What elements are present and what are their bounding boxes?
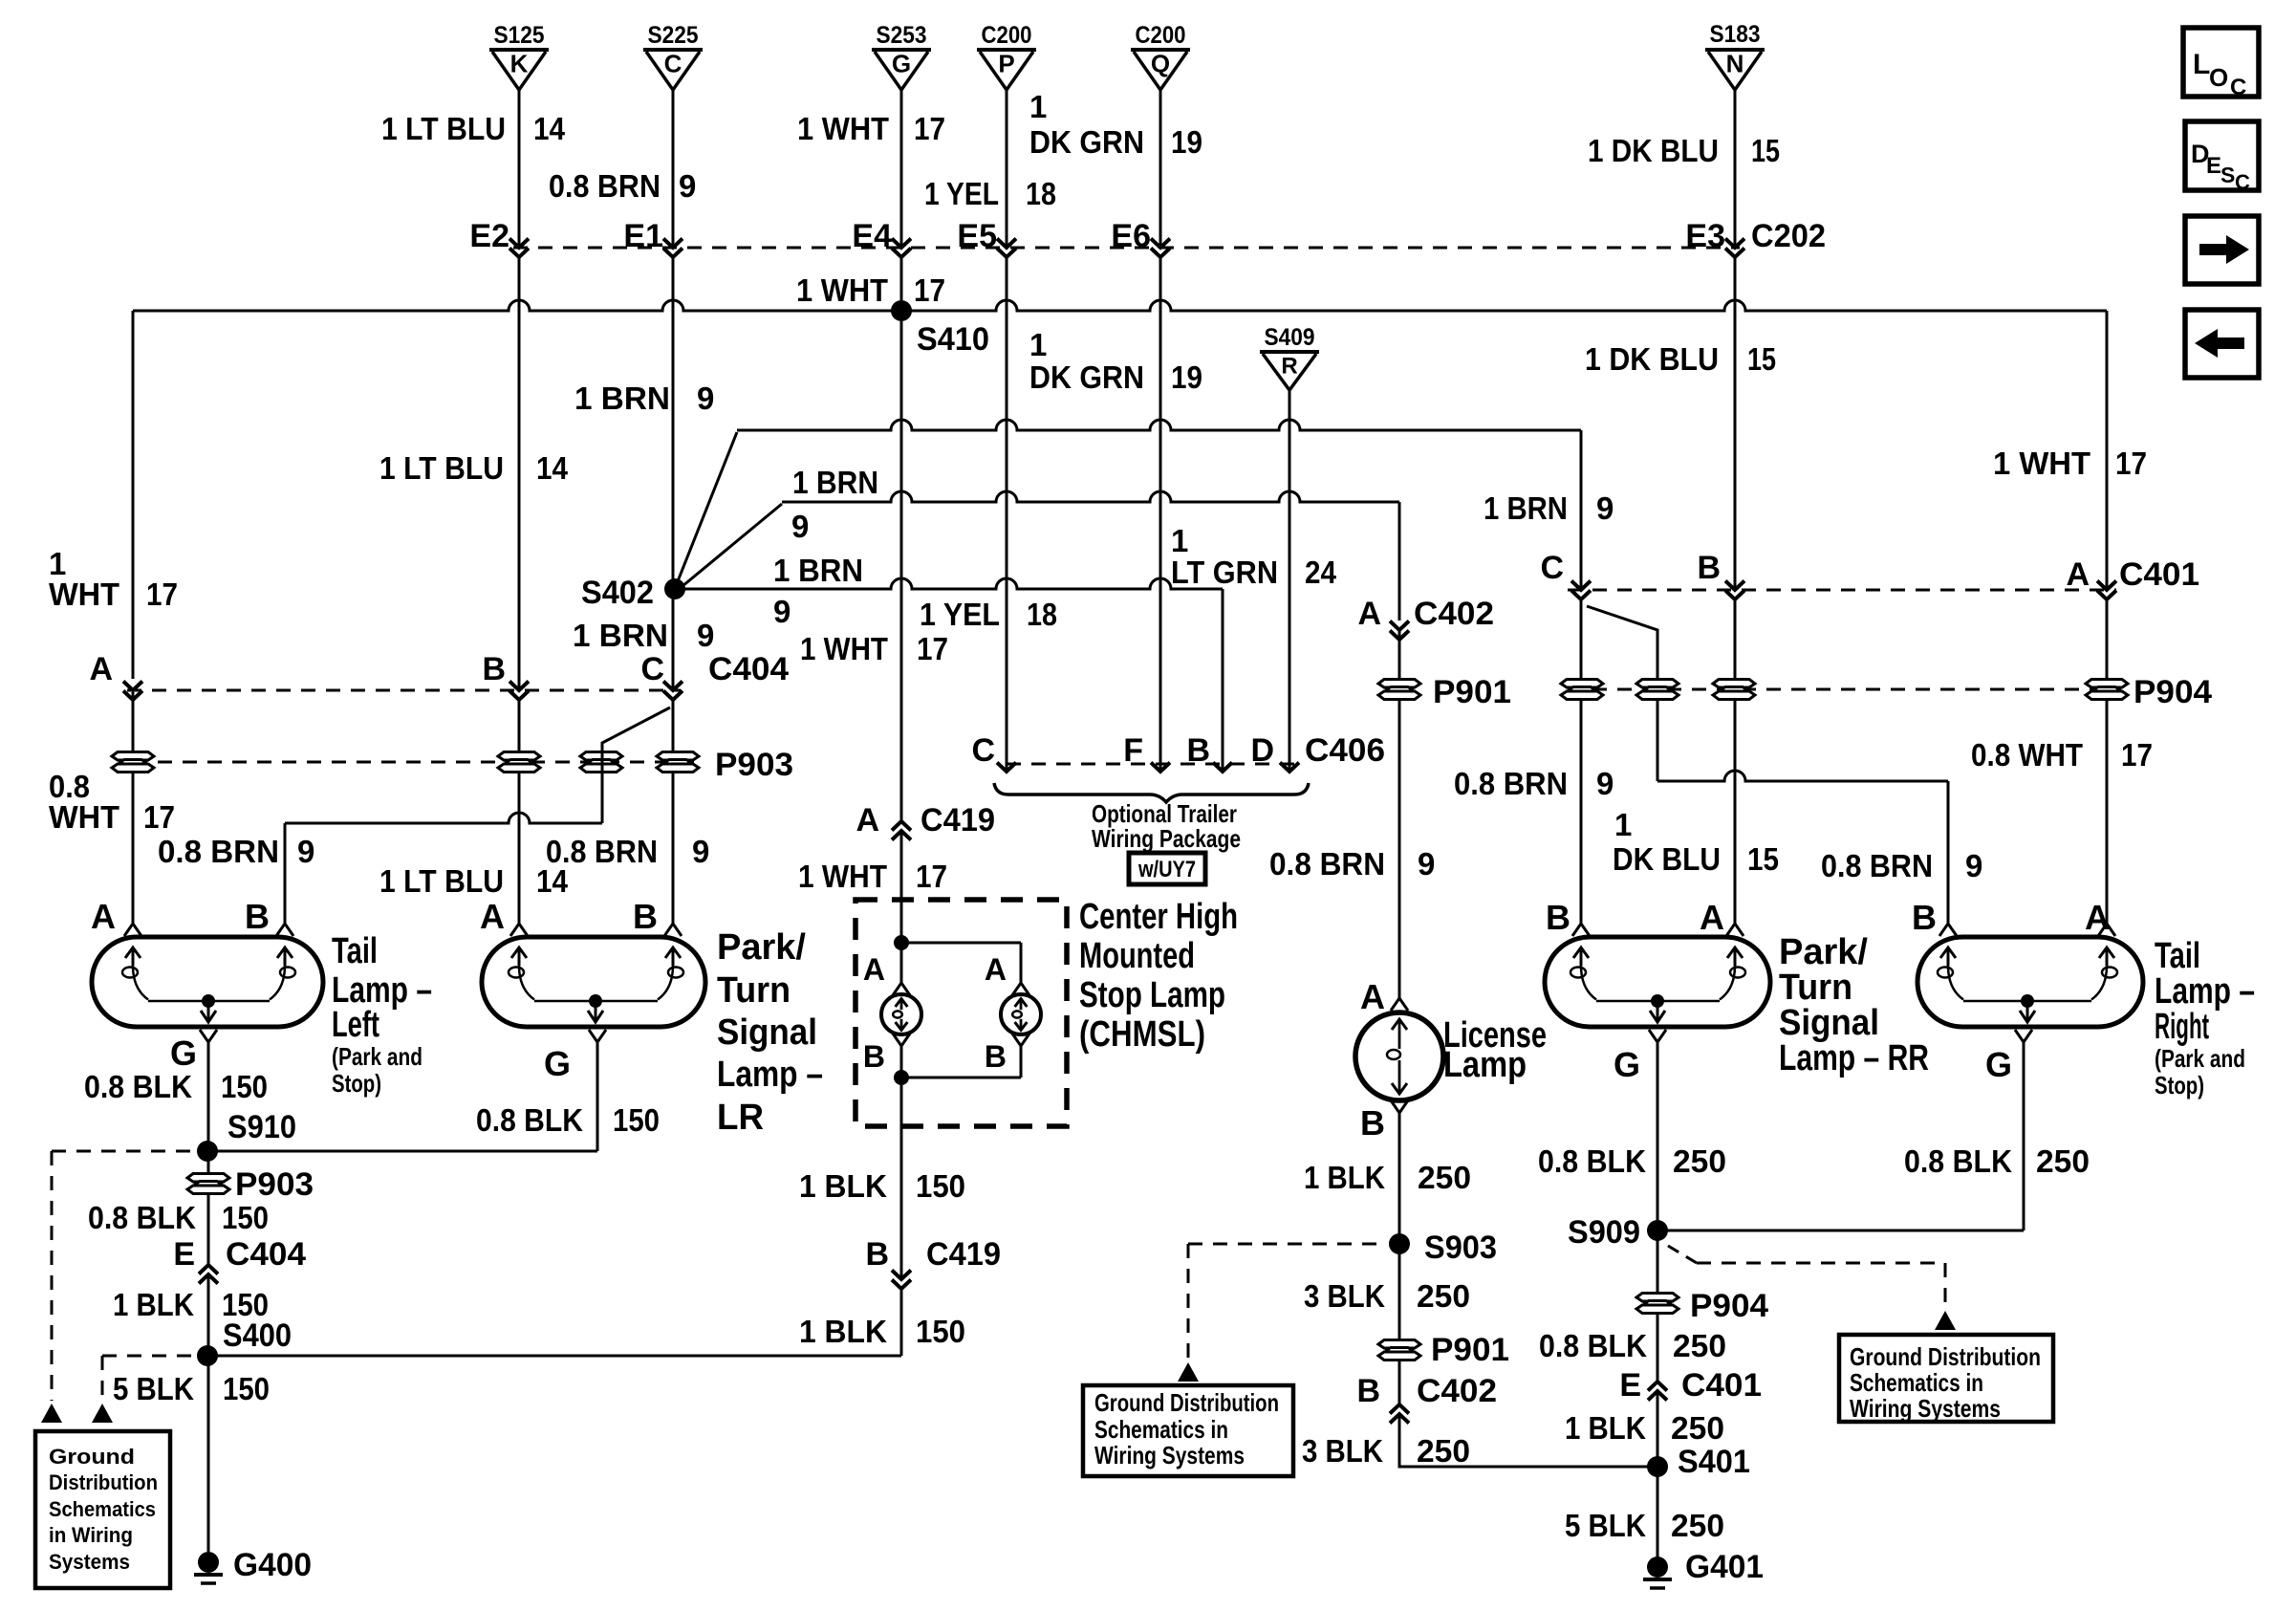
label License Lamp <box>1443 1015 1547 1085</box>
svg-text:Signal: Signal <box>717 1012 817 1053</box>
grommet row P903 dashed <box>133 761 703 764</box>
svg-text:9: 9 <box>692 834 709 869</box>
svg-text:P901: P901 <box>1433 674 1511 710</box>
connector C202 pin E1 arrow <box>663 239 682 258</box>
goto dashed S903 <box>1178 1244 1386 1382</box>
grommet P904row-2 <box>1636 680 1679 700</box>
connector C402 pin B <box>1356 1373 1497 1424</box>
svg-text:250: 250 <box>1673 1143 1726 1179</box>
svg-text:A: A <box>2066 556 2090 593</box>
label E4 <box>852 218 892 254</box>
svg-text:P903: P903 <box>715 747 793 783</box>
pin fork tailleft A <box>91 897 141 936</box>
svg-text:150: 150 <box>222 1200 269 1235</box>
wire 1 BRN 9 S402 to C402-A <box>677 491 1399 620</box>
connector C404 pin B arrow <box>482 651 529 700</box>
label 0.8 WHT 17 <box>1971 737 2153 773</box>
svg-text:19: 19 <box>1171 359 1202 395</box>
wire C 0.8 BRN 9 <box>672 89 675 924</box>
junction S909 <box>1568 1214 1668 1251</box>
brace optional trailer <box>994 783 1309 802</box>
svg-text:9: 9 <box>297 834 314 869</box>
lamp Tail Lamp Right <box>1917 937 2143 1027</box>
svg-text:1 DK BLU: 1 DK BLU <box>1588 133 1719 168</box>
label 0.8 BLK 250 low <box>1539 1328 1726 1363</box>
svg-text:0.8 BLK: 0.8 BLK <box>1539 1328 1647 1363</box>
svg-text:C402: C402 <box>1417 1373 1497 1409</box>
svg-text:9: 9 <box>697 618 714 653</box>
CHMSL bulb left <box>881 994 921 1034</box>
connector C406 dashed line <box>1007 763 1295 766</box>
connector C202 pin E6 arrow <box>1151 239 1170 258</box>
svg-text:E4: E4 <box>852 218 892 254</box>
connector S183 triangle N <box>1705 21 1765 90</box>
svg-text:S909: S909 <box>1568 1214 1640 1251</box>
label 0.8 BLK 250 tailright <box>1904 1143 2090 1179</box>
wire 1 WHT 17 right <box>2106 311 2109 924</box>
CHMSL bulb B pin left <box>863 1034 910 1074</box>
svg-text:E1: E1 <box>623 218 663 254</box>
legend box arrow right <box>2185 216 2259 284</box>
svg-text:O: O <box>2209 63 2228 92</box>
svg-text:E2: E2 <box>469 218 509 254</box>
wire P 1 YEL 18 <box>1006 89 1008 771</box>
label w/UY7 box <box>1129 853 1205 884</box>
label CHMSL title <box>1079 897 1238 1055</box>
connector C401 pin E <box>1619 1367 1762 1404</box>
svg-text:C200: C200 <box>982 22 1032 49</box>
junction S910 <box>197 1141 218 1162</box>
svg-text:14: 14 <box>533 111 566 146</box>
svg-text:Tail: Tail <box>332 931 378 971</box>
grommet row P904 dashed <box>1568 688 2107 691</box>
box Ground Distribution left <box>35 1431 170 1588</box>
svg-text:Ground: Ground <box>49 1445 135 1469</box>
svg-text:(CHMSL): (CHMSL) <box>1079 1014 1205 1055</box>
svg-text:WHT: WHT <box>49 577 119 612</box>
svg-text:Distribution: Distribution <box>49 1470 158 1494</box>
svg-text:9: 9 <box>1596 766 1614 801</box>
svg-text:(Park and: (Park and <box>2155 1044 2245 1073</box>
connector C406 pin F arrow <box>1151 763 1170 773</box>
svg-text:K: K <box>510 50 529 78</box>
label 1 BLK 150 chmsl <box>799 1168 965 1204</box>
svg-text:0.8 WHT: 0.8 WHT <box>1971 737 2083 773</box>
grommet P903-1 <box>112 752 154 773</box>
wire 1 BRN 9 S402 to C401-C <box>676 420 1581 590</box>
connector C406 pin B arrow <box>1213 763 1232 773</box>
svg-text:Mounted: Mounted <box>1079 936 1195 976</box>
svg-text:Schematics in: Schematics in <box>1094 1415 1228 1444</box>
svg-text:B: B <box>1697 550 1721 586</box>
svg-text:3 BLK: 3 BLK <box>1304 1278 1385 1314</box>
pin fork license A <box>1360 977 1408 1016</box>
label 9 line3 <box>791 509 809 544</box>
lamp Park/Turn Signal LR <box>482 937 705 1027</box>
label 0.8 BRN 9 parkLR-B <box>546 834 709 869</box>
svg-text:150: 150 <box>916 1314 965 1349</box>
svg-text:19: 19 <box>1171 124 1202 160</box>
svg-text:1 WHT: 1 WHT <box>798 859 887 894</box>
label 0.8 BRN 9 license <box>1269 846 1435 882</box>
connector C419 pin B <box>865 1236 1001 1289</box>
lamp Park/Turn Signal RR <box>1545 937 1770 1027</box>
svg-text:E: E <box>2206 153 2221 179</box>
svg-text:17: 17 <box>2121 737 2153 773</box>
pin fork tailright B <box>1912 898 1957 937</box>
wire 1 BRN 9 S402 to C406-B <box>675 578 1223 771</box>
label 1 BRN 9 below S402 <box>573 618 714 653</box>
label E5 <box>957 218 997 254</box>
svg-text:150: 150 <box>916 1168 965 1204</box>
svg-text:1 LT BLU: 1 LT BLU <box>379 863 504 899</box>
svg-text:G401: G401 <box>1685 1549 1764 1585</box>
svg-text:1 WHT: 1 WHT <box>1993 446 2090 481</box>
svg-text:Stop): Stop) <box>2155 1071 2204 1099</box>
lamp License Lamp circle <box>1355 1012 1443 1100</box>
svg-text:C: C <box>1540 550 1564 586</box>
svg-text:1: 1 <box>1171 523 1188 558</box>
pin fork parkLR A <box>480 897 528 936</box>
wire 0.8 BRN 9 license feed <box>1398 630 1401 998</box>
svg-text:17: 17 <box>914 111 945 146</box>
svg-text:LT GRN: LT GRN <box>1171 555 1278 590</box>
svg-text:C401: C401 <box>1681 1367 1762 1404</box>
svg-text:0.8 BRN: 0.8 BRN <box>1269 846 1385 882</box>
svg-text:150: 150 <box>221 1069 268 1104</box>
label 1 BLK 150 low <box>799 1314 965 1349</box>
svg-text:1 BRN: 1 BRN <box>792 465 878 500</box>
connector C402 pin A <box>1357 596 1494 640</box>
pin fork tailleft G <box>170 1030 217 1073</box>
label E3 <box>1685 218 1725 254</box>
svg-text:150: 150 <box>223 1371 270 1406</box>
label Park Turn Signal Lamp LR <box>717 927 823 1138</box>
label 1 WHT 17 left <box>49 546 178 612</box>
svg-text:C202: C202 <box>1751 218 1826 254</box>
svg-text:250: 250 <box>1671 1410 1724 1446</box>
label 3 BLK 250 b <box>1302 1433 1470 1469</box>
svg-text:C401: C401 <box>2119 556 2199 593</box>
svg-text:C419: C419 <box>921 802 995 838</box>
label 1 DK BLU 15 mid <box>1585 341 1776 377</box>
label 1 WHT 17 mid <box>800 631 948 666</box>
label E1 <box>623 218 663 254</box>
svg-text:C: C <box>664 50 682 78</box>
label 1 LT BLU 14 mid <box>379 450 569 486</box>
svg-text:C406: C406 <box>1305 732 1385 769</box>
label 9 line4 <box>773 594 791 629</box>
label P904 <box>2134 674 2212 710</box>
label 1 BRN line3 <box>792 465 878 500</box>
svg-text:17: 17 <box>143 799 175 835</box>
goto dashed S400 <box>92 1356 194 1423</box>
svg-text:S253: S253 <box>877 22 927 49</box>
svg-text:C: C <box>640 651 664 687</box>
svg-text:1: 1 <box>1029 89 1047 124</box>
CHMSL bulb A pin right <box>985 952 1029 995</box>
connector S253 triangle G <box>872 22 931 90</box>
svg-text:9: 9 <box>697 381 714 416</box>
label P903 <box>715 747 793 783</box>
label 1 YEL 18 top <box>924 176 1056 211</box>
svg-text:Q: Q <box>1151 50 1170 78</box>
ground G400 <box>194 1547 312 1583</box>
svg-text:D: D <box>1250 732 1274 769</box>
svg-text:A: A <box>89 651 113 687</box>
svg-text:Right: Right <box>2155 1007 2209 1047</box>
svg-text:1 BRN: 1 BRN <box>773 553 863 588</box>
svg-text:Systems: Systems <box>49 1550 130 1574</box>
svg-text:S125: S125 <box>494 22 545 49</box>
svg-text:L: L <box>2193 49 2210 80</box>
svg-text:24: 24 <box>1305 555 1337 590</box>
svg-text:9: 9 <box>791 509 809 544</box>
label 0.8 BRN 9 top <box>549 168 696 204</box>
svg-text:9: 9 <box>1596 490 1614 526</box>
junction S402 <box>581 575 685 611</box>
label 5 BLK 250 <box>1565 1508 1724 1543</box>
label Tail Lamp Left <box>332 931 432 1098</box>
svg-text:1 WHT: 1 WHT <box>800 631 888 666</box>
svg-text:C404: C404 <box>708 651 789 687</box>
label Tail Lamp Right <box>2155 936 2255 1099</box>
label 0.8 BLK 150 parkLR <box>476 1102 660 1138</box>
pin fork parkLR B <box>633 897 682 936</box>
svg-text:17: 17 <box>914 272 945 308</box>
connector S225 triangle C <box>643 22 703 90</box>
svg-text:Schematics: Schematics <box>49 1497 156 1521</box>
svg-text:0.8 BRN: 0.8 BRN <box>549 168 661 204</box>
wire 1 WHT 17 left <box>132 311 135 924</box>
svg-text:15: 15 <box>1747 341 1776 377</box>
svg-text:B: B <box>1546 898 1570 937</box>
connector C200 triangle Q <box>1131 22 1190 90</box>
label 1 LT GRN 24 <box>1171 523 1337 590</box>
svg-text:5 BLK: 5 BLK <box>113 1371 194 1406</box>
connector C404 pin E <box>173 1236 306 1284</box>
connector C401 pin B arrow <box>1697 550 1744 599</box>
svg-text:B: B <box>1360 1103 1385 1143</box>
label C202 <box>1751 218 1826 254</box>
svg-text:Left: Left <box>332 1005 379 1045</box>
svg-text:B: B <box>865 1236 889 1273</box>
svg-text:G: G <box>170 1034 197 1073</box>
ground G401 <box>1643 1549 1764 1588</box>
junction S903 <box>1389 1230 1497 1266</box>
connector C401 pin C arrow <box>1540 550 1591 599</box>
svg-text:17: 17 <box>916 859 947 894</box>
svg-text:A: A <box>480 897 505 936</box>
svg-text:C419: C419 <box>926 1236 1001 1273</box>
svg-text:S910: S910 <box>227 1109 296 1145</box>
svg-text:1 WHT: 1 WHT <box>796 272 888 308</box>
svg-text:250: 250 <box>1671 1508 1724 1543</box>
svg-text:Turn: Turn <box>1779 968 1852 1008</box>
label C401 <box>2119 556 2199 593</box>
svg-text:0.8 BLK: 0.8 BLK <box>88 1200 196 1235</box>
connector C202 pin E2 arrow <box>509 239 529 258</box>
svg-text:S400: S400 <box>223 1317 292 1354</box>
grommet P904-2 <box>1636 1288 1768 1324</box>
label 1 BRN 9 wireC <box>574 381 714 416</box>
svg-text:Center High: Center High <box>1079 897 1238 937</box>
svg-text:18: 18 <box>1026 176 1056 211</box>
label S910 <box>227 1109 296 1145</box>
connector C202 pin E5 arrow <box>997 239 1016 258</box>
CHMSL bulb right <box>1001 994 1041 1034</box>
svg-text:1 YEL: 1 YEL <box>924 176 999 211</box>
svg-text:0.8 BLK: 0.8 BLK <box>1538 1143 1646 1179</box>
CHMSL bottom junction <box>894 1046 1021 1085</box>
connector S125 triangle K <box>489 22 549 90</box>
svg-text:B: B <box>985 1039 1007 1074</box>
wire R 1 LT GRN 24 <box>1289 390 1291 771</box>
svg-text:Ground Distribution: Ground Distribution <box>1094 1388 1279 1417</box>
svg-text:1 WHT: 1 WHT <box>797 111 889 146</box>
svg-text:1 BLK: 1 BLK <box>1565 1410 1646 1446</box>
svg-text:1 LT BLU: 1 LT BLU <box>381 111 506 146</box>
label Park Turn Signal Lamp RR <box>1779 932 1929 1078</box>
label S400 <box>223 1317 292 1354</box>
svg-text:Ground Distribution: Ground Distribution <box>1850 1342 2041 1371</box>
label C404 <box>708 651 789 687</box>
legend box arrow left <box>2185 310 2259 378</box>
label 0.8 BRN 9 parkRR B <box>1454 766 1614 801</box>
svg-text:A: A <box>985 952 1007 987</box>
svg-text:Stop): Stop) <box>332 1069 381 1098</box>
svg-text:DK BLU: DK BLU <box>1613 841 1721 877</box>
label 1 BRN line4 <box>773 553 863 588</box>
svg-text:1 BRN: 1 BRN <box>573 618 668 653</box>
label E2 <box>469 218 509 254</box>
wire 1 BLK 150 to S400 <box>207 1289 901 1356</box>
connector S409 triangle R <box>1260 324 1319 390</box>
svg-text:3 BLK: 3 BLK <box>1302 1433 1383 1469</box>
label Optional Trailer Wiring Package <box>1092 799 1241 853</box>
junction S401 <box>1647 1444 1750 1480</box>
svg-text:A: A <box>2085 898 2110 937</box>
connector C404 pin A arrow <box>89 651 142 700</box>
svg-text:S183: S183 <box>1710 21 1761 48</box>
svg-text:DK GRN: DK GRN <box>1029 359 1144 395</box>
CHMSL bulb A pin left <box>863 952 910 995</box>
connector C202 pin E3 arrow <box>1725 239 1744 258</box>
svg-text:A: A <box>1700 898 1724 937</box>
svg-text:G: G <box>544 1044 571 1083</box>
svg-text:A: A <box>91 897 116 936</box>
svg-text:1 BRN: 1 BRN <box>1484 490 1568 526</box>
legend box DESC <box>2185 121 2259 194</box>
svg-text:P904: P904 <box>2134 674 2212 710</box>
wire S410 bus 1 WHT 17 <box>133 300 2107 311</box>
wire K 1 LT BLU 14 <box>518 90 521 924</box>
svg-text:17: 17 <box>2115 446 2147 481</box>
svg-text:Lamp –: Lamp – <box>717 1055 823 1095</box>
label 0.8 BRN 9 tailright B <box>1821 848 1982 883</box>
box Ground Distribution right <box>1839 1335 2053 1423</box>
pin fork parkRR B <box>1546 898 1590 937</box>
svg-text:17: 17 <box>146 577 178 612</box>
svg-text:C: C <box>971 732 995 769</box>
svg-text:150: 150 <box>613 1102 660 1138</box>
svg-text:1 YEL: 1 YEL <box>920 597 1000 632</box>
wire S909 to tailright G <box>1657 1042 2024 1230</box>
svg-text:9: 9 <box>1965 848 1982 883</box>
svg-text:1 BLK: 1 BLK <box>113 1287 194 1322</box>
svg-text:C402: C402 <box>1414 596 1494 632</box>
svg-text:0.8 BRN: 0.8 BRN <box>158 834 279 869</box>
pin fork tailright A <box>2085 898 2115 937</box>
wire 0.8 BRN 9 C401C to tailright B <box>1587 606 1948 924</box>
svg-text:0.8 BRN: 0.8 BRN <box>1821 848 1933 883</box>
svg-text:Wiring Package: Wiring Package <box>1092 824 1241 853</box>
label 1 BLK 250 <box>1565 1410 1724 1446</box>
grommet P903-2 <box>498 752 540 773</box>
grommet P901 <box>1378 674 1511 710</box>
svg-text:15: 15 <box>1751 133 1780 168</box>
svg-text:E: E <box>1619 1367 1641 1404</box>
svg-text:R: R <box>1281 353 1297 379</box>
grommet P904row-3 <box>1713 680 1755 700</box>
svg-text:A: A <box>1360 977 1385 1016</box>
svg-text:A: A <box>1357 596 1381 632</box>
svg-text:B: B <box>633 897 658 936</box>
label 0.8 WHT 17 left <box>49 769 175 835</box>
svg-text:1 BLK: 1 BLK <box>799 1168 887 1204</box>
grommet P904 <box>2086 680 2128 700</box>
svg-text:Tail: Tail <box>2155 936 2200 976</box>
svg-text:Schematics in: Schematics in <box>1850 1368 1983 1397</box>
CHMSL top junction <box>894 935 1021 983</box>
svg-text:1 BRN: 1 BRN <box>574 381 670 416</box>
svg-text:1 DK BLU: 1 DK BLU <box>1585 341 1719 377</box>
svg-text:E6: E6 <box>1111 218 1151 254</box>
svg-text:5 BLK: 5 BLK <box>1565 1508 1646 1543</box>
wire G 1 WHT 17 <box>900 89 903 983</box>
connector C406 pin D arrow <box>1280 763 1299 773</box>
svg-text:B: B <box>1186 732 1210 769</box>
wire N 1 DK BLU 15 <box>1734 89 1737 924</box>
grommet P903-5 <box>187 1166 314 1203</box>
svg-text:250: 250 <box>1673 1328 1726 1363</box>
goto dashed S910 <box>41 1151 196 1423</box>
svg-text:1: 1 <box>1029 327 1047 362</box>
label E6 <box>1111 218 1151 254</box>
wire S910 to parkLR G <box>207 1042 597 1151</box>
connector C401 pin A arrow <box>2066 556 2116 599</box>
wire CHMSL ground drop <box>900 1078 903 1279</box>
svg-text:E3: E3 <box>1685 218 1725 254</box>
svg-text:G: G <box>1985 1045 2012 1084</box>
pin fork parkLR G <box>544 1030 606 1083</box>
svg-text:A: A <box>863 952 885 987</box>
label 1 LT BLU 14 top <box>381 111 566 146</box>
wire 0.8 BRN 9 C404C to tailleft B <box>285 708 670 924</box>
svg-text:Lamp –: Lamp – <box>2155 971 2255 1012</box>
pin fork parkRR A <box>1700 898 1744 937</box>
box Ground Distribution middle <box>1083 1385 1293 1476</box>
label 1 DK GRN 19 mid <box>1029 327 1202 395</box>
svg-text:Stop Lamp: Stop Lamp <box>1079 975 1225 1015</box>
label 1 DK BLU 15 top <box>1588 133 1780 168</box>
grommet P901-2 <box>1378 1332 1509 1368</box>
svg-text:C404: C404 <box>226 1236 306 1273</box>
svg-text:0.8 BRN: 0.8 BRN <box>546 834 658 869</box>
svg-text:B: B <box>863 1039 885 1074</box>
svg-text:1 BLK: 1 BLK <box>799 1314 887 1349</box>
svg-text:G: G <box>1614 1045 1640 1084</box>
